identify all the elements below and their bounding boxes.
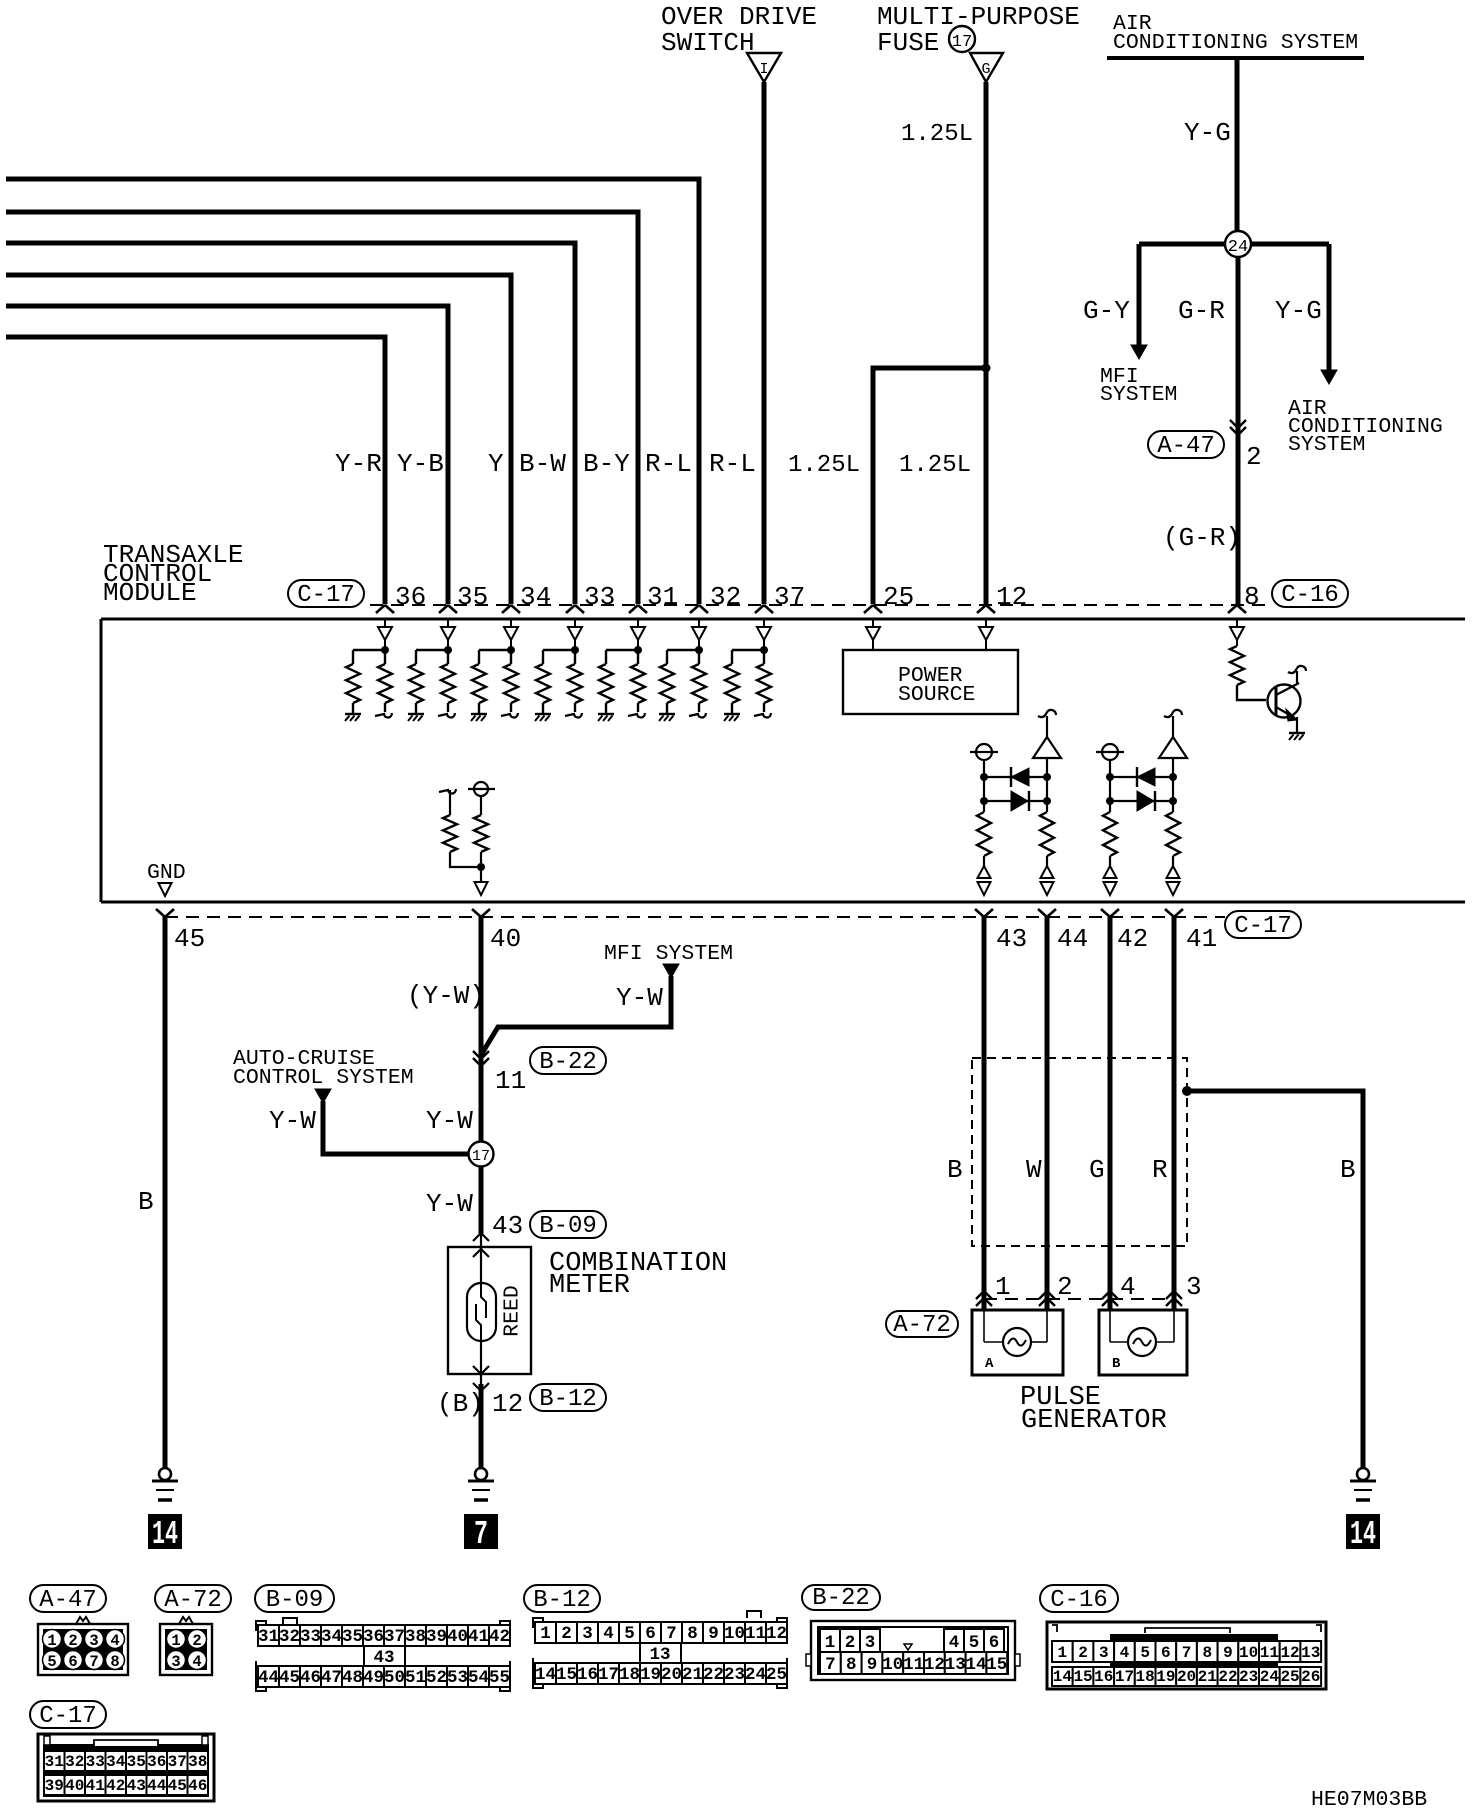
pulse connector dashed line (984, 1298, 1174, 1300)
svg-text:45: 45 (279, 1668, 300, 1688)
terminal mark pin 40 (472, 909, 490, 917)
svg-text:3: 3 (89, 1632, 98, 1650)
svg-text:5: 5 (47, 1653, 56, 1671)
terminal chevrons at meter top (473, 1233, 489, 1257)
svg-text:1: 1 (825, 1633, 836, 1653)
svg-text:53: 53 (447, 1668, 468, 1688)
svg-text:8: 8 (846, 1655, 857, 1675)
svg-text:4: 4 (1120, 1272, 1136, 1302)
pin number 12 (996, 582, 1027, 612)
svg-text:35: 35 (127, 1753, 146, 1771)
resistor base pin 8 (1230, 620, 1266, 700)
svg-text:40: 40 (447, 1627, 468, 1647)
junction dot fuse branch (982, 364, 991, 373)
connector C-16 reference top (1272, 580, 1348, 609)
svg-text:3: 3 (171, 1653, 180, 1671)
splice circle 24 overlay (1225, 231, 1251, 257)
pin number 2 (1246, 442, 1262, 472)
splice circle 24 (1139, 231, 1329, 257)
svg-text:2: 2 (845, 1633, 856, 1653)
wire label (G-R) (1163, 523, 1241, 553)
connector B-22 reference (530, 1047, 606, 1076)
svg-text:39: 39 (45, 1777, 64, 1795)
svg-text:19: 19 (1156, 1668, 1175, 1686)
wire label Y-R (335, 449, 382, 479)
svg-text:14: 14 (1350, 1516, 1376, 1553)
svg-text:1: 1 (171, 1632, 180, 1650)
fuse connector triangle G (970, 53, 1003, 82)
air conditioning system label top (1113, 12, 1358, 55)
svg-text:6: 6 (68, 1653, 77, 1671)
wire to pin 34 (6, 275, 511, 604)
wire label B-W (519, 449, 566, 479)
svg-text:37: 37 (168, 1753, 187, 1771)
wire over drive switch to pin 37 (762, 82, 767, 604)
transaxle control module box (101, 619, 1465, 902)
svg-text:10: 10 (724, 1624, 745, 1644)
svg-text:1.25L: 1.25L (899, 452, 971, 479)
connector C-17 pinout label (30, 1701, 106, 1730)
wire G-Y branch to MFI system (1131, 244, 1147, 359)
svg-text:C-16: C-16 (1281, 582, 1339, 609)
wire Y-W from auto-cruise control (315, 1089, 468, 1154)
svg-text:20: 20 (661, 1665, 682, 1685)
wire to pin 35 (6, 306, 448, 604)
wire label B pulse (947, 1155, 963, 1185)
wire label Y-W lower (426, 1189, 473, 1219)
drawing number (1311, 1788, 1427, 1810)
MFI system label mid (604, 942, 733, 966)
svg-text:42: 42 (106, 1777, 125, 1795)
terminal mark pin 12 (977, 605, 995, 613)
terminal chevrons pulse pin 4 (1102, 1291, 1118, 1306)
pulse pickup comparator block B (1096, 710, 1187, 895)
wire label Y-W left (269, 1106, 316, 1136)
transistor Q output (1268, 666, 1307, 740)
connector B-09 pinout label (255, 1585, 334, 1614)
svg-text:46: 46 (188, 1777, 207, 1795)
svg-text:33: 33 (300, 1627, 321, 1647)
svg-text:23: 23 (1239, 1668, 1258, 1686)
svg-text:14: 14 (1053, 1668, 1073, 1686)
svg-text:2: 2 (192, 1632, 201, 1650)
svg-text:7: 7 (1182, 1644, 1192, 1662)
transaxle control module label (103, 540, 243, 608)
connector A-47 pinout label (30, 1585, 106, 1614)
svg-text:B-09: B-09 (539, 1213, 597, 1240)
svg-text:15: 15 (556, 1665, 577, 1685)
svg-text:22: 22 (1218, 1668, 1237, 1686)
pulse generator B (1099, 1310, 1187, 1375)
splice circle 17 (469, 1142, 494, 1167)
wire label W pulse (1026, 1155, 1042, 1185)
svg-text:36: 36 (363, 1627, 384, 1647)
svg-text:(G-R): (G-R) (1163, 523, 1241, 553)
terminal mark pin 43 (975, 909, 993, 917)
over drive switch connector triangle I (747, 53, 781, 82)
svg-text:52: 52 (426, 1668, 447, 1688)
svg-text:G: G (981, 61, 990, 78)
ground symbol right (1350, 1468, 1376, 1500)
terminal mark pin 25 (864, 605, 882, 613)
svg-text:11: 11 (745, 1624, 766, 1644)
svg-text:2: 2 (68, 1632, 77, 1650)
pulse generator shield dashed box (972, 1058, 1187, 1246)
wire (Y-W) pin 40 (479, 916, 484, 1247)
svg-text:10: 10 (882, 1655, 903, 1675)
pin number 33 (584, 582, 615, 612)
svg-text:43: 43 (492, 1211, 523, 1241)
svg-text:3: 3 (865, 1633, 876, 1653)
connector B-09 reference (530, 1211, 606, 1240)
svg-text:B-12: B-12 (539, 1386, 597, 1413)
svg-text:3: 3 (1099, 1644, 1109, 1662)
svg-text:Y-B: Y-B (397, 449, 444, 479)
svg-text:Y-W: Y-W (426, 1106, 473, 1136)
auto-cruise control system label (233, 1047, 414, 1090)
wire label B shield (1340, 1155, 1356, 1185)
svg-text:G: G (1089, 1155, 1105, 1185)
terminal mark pin 44 (1038, 909, 1056, 917)
svg-text:44: 44 (258, 1668, 279, 1688)
pin number 40 (490, 924, 521, 954)
power source block (843, 620, 1018, 714)
svg-text:B: B (1340, 1155, 1356, 1185)
wire label Y-G top (1184, 118, 1231, 148)
svg-text:32: 32 (710, 582, 741, 612)
terminal mark pin 31 (629, 605, 647, 613)
svg-text:1: 1 (47, 1632, 56, 1650)
svg-text:13: 13 (945, 1655, 966, 1675)
svg-text:55: 55 (489, 1668, 510, 1688)
svg-text:22: 22 (703, 1665, 724, 1685)
svg-text:45: 45 (174, 924, 205, 954)
terminal mark pin 33 (566, 605, 584, 613)
terminal mark pin 36 (376, 605, 394, 613)
svg-text:B-22: B-22 (812, 1585, 870, 1612)
svg-text:Y-W: Y-W (426, 1189, 473, 1219)
terminal chevrons at meter bottom (473, 1366, 489, 1391)
wire pulse generator pin 41 (1172, 916, 1177, 1310)
pin number 32 (710, 582, 741, 612)
svg-text:GND: GND (147, 861, 186, 885)
connector C-16 pinout label (1040, 1585, 1118, 1614)
wire label Y-B (397, 449, 444, 479)
svg-text:12: 12 (924, 1655, 945, 1675)
svg-text:7: 7 (825, 1655, 836, 1675)
svg-text:37: 37 (384, 1627, 405, 1647)
connector C-17 reference bottom (1225, 911, 1301, 940)
svg-text:15: 15 (1073, 1668, 1092, 1686)
svg-text:18: 18 (1136, 1668, 1155, 1686)
svg-text:2: 2 (1246, 442, 1262, 472)
pin number 12 meter (492, 1389, 523, 1419)
svg-text:Y-G: Y-G (1184, 118, 1231, 148)
svg-text:1.25L: 1.25L (788, 452, 860, 479)
svg-text:Y-W: Y-W (269, 1106, 316, 1136)
svg-text:23: 23 (724, 1665, 745, 1685)
svg-text:32: 32 (279, 1627, 300, 1647)
connector A-72 reference (886, 1311, 958, 1339)
svg-text:33: 33 (584, 582, 615, 612)
svg-text:47: 47 (321, 1668, 342, 1688)
pin number 35 (457, 582, 488, 612)
svg-text:32: 32 (65, 1753, 84, 1771)
wire Y-G from a/c system (1235, 58, 1240, 232)
wire label (B) (437, 1389, 484, 1419)
wire label R-L right (709, 449, 756, 479)
svg-text:2: 2 (1057, 1272, 1073, 1302)
wire pulse generator pin 43 (982, 916, 987, 1310)
ground symbol center (468, 1468, 494, 1500)
svg-text:14: 14 (152, 1516, 178, 1553)
svg-text:34: 34 (106, 1753, 126, 1771)
svg-text:5: 5 (1140, 1644, 1150, 1662)
terminal mark pin 32 (690, 605, 708, 613)
svg-text:1: 1 (540, 1624, 551, 1644)
svg-text:SYSTEM: SYSTEM (1288, 433, 1365, 457)
pulse generator A (972, 1310, 1063, 1375)
pin number 43 (996, 924, 1027, 954)
svg-text:36: 36 (147, 1753, 166, 1771)
svg-text:7: 7 (89, 1653, 98, 1671)
svg-text:W: W (1026, 1155, 1042, 1185)
wire Y-W from MFI system (481, 964, 679, 1055)
ground reference 7 (464, 1514, 498, 1553)
svg-text:2: 2 (1078, 1644, 1088, 1662)
svg-text:41: 41 (468, 1627, 489, 1647)
svg-text:16: 16 (1094, 1668, 1113, 1686)
wire label R-L left (645, 449, 692, 479)
svg-text:38: 38 (405, 1627, 426, 1647)
svg-text:36: 36 (395, 582, 426, 612)
svg-text:2: 2 (561, 1624, 572, 1644)
module input resistor pair pin 35 (408, 620, 455, 721)
svg-text:31: 31 (647, 582, 678, 612)
svg-text:44: 44 (147, 1777, 167, 1795)
svg-text:6: 6 (1161, 1644, 1171, 1662)
svg-text:FUSE: FUSE (877, 28, 939, 58)
svg-text:34: 34 (520, 582, 551, 612)
svg-text:MODULE: MODULE (103, 578, 197, 608)
svg-text:B-Y: B-Y (583, 449, 630, 479)
svg-text:B-W: B-W (519, 449, 566, 479)
over drive switch label (661, 2, 817, 58)
pin number 3 pulse (1186, 1272, 1202, 1302)
svg-text:17: 17 (472, 1148, 490, 1165)
svg-text:25: 25 (1280, 1668, 1299, 1686)
svg-text:14: 14 (965, 1655, 986, 1675)
svg-text:26: 26 (1301, 1668, 1320, 1686)
svg-text:17: 17 (598, 1665, 619, 1685)
svg-text:7: 7 (474, 1516, 488, 1553)
module input resistor pair pin 32 (659, 620, 706, 721)
svg-text:Y-G: Y-G (1275, 296, 1322, 326)
wire Y-G branch to air conditioning (1321, 244, 1337, 384)
wire to pin 36 (6, 337, 385, 604)
terminal mark pin 34 (502, 605, 520, 613)
svg-text:MFI SYSTEM: MFI SYSTEM (604, 942, 733, 966)
svg-text:9: 9 (708, 1624, 719, 1644)
svg-text:C-16: C-16 (1050, 1587, 1108, 1614)
svg-text:A-47: A-47 (39, 1587, 97, 1614)
svg-text:48: 48 (342, 1668, 363, 1688)
svg-text:41: 41 (1186, 924, 1217, 954)
svg-text:SYSTEM: SYSTEM (1100, 383, 1177, 407)
svg-text:(Y-W): (Y-W) (407, 981, 485, 1011)
svg-text:12: 12 (996, 582, 1027, 612)
ground reference 14 left (148, 1514, 182, 1553)
terminal chevrons pulse pin 2 (1039, 1291, 1055, 1306)
svg-text:METER: METER (549, 1271, 630, 1301)
reed switch (467, 1247, 496, 1374)
wire value 1.25L left (788, 452, 860, 479)
svg-text:GENERATOR: GENERATOR (1021, 1406, 1167, 1436)
svg-text:4: 4 (110, 1632, 119, 1650)
svg-text:8: 8 (687, 1624, 698, 1644)
svg-text:A-72: A-72 (164, 1587, 222, 1614)
ground reference 14 right (1346, 1514, 1380, 1553)
svg-text:Y-W: Y-W (616, 983, 663, 1013)
svg-text:8: 8 (110, 1653, 119, 1671)
pin number 25 (883, 582, 914, 612)
svg-text:31: 31 (45, 1753, 64, 1771)
connector A-47 reference (1148, 431, 1224, 460)
svg-text:25: 25 (766, 1665, 787, 1685)
terminal mark pin 35 (439, 605, 457, 613)
svg-text:B: B (947, 1155, 963, 1185)
svg-text:B-09: B-09 (266, 1587, 324, 1614)
terminal mark pin 41 (1165, 909, 1183, 917)
wire label G pulse (1089, 1155, 1105, 1185)
svg-text:B-12: B-12 (533, 1587, 591, 1614)
svg-text:35: 35 (342, 1627, 363, 1647)
pin number 41 (1186, 924, 1217, 954)
svg-text:38: 38 (188, 1753, 207, 1771)
svg-text:A-47: A-47 (1157, 433, 1215, 460)
svg-text:37: 37 (774, 582, 805, 612)
svg-text:C-17: C-17 (297, 582, 355, 609)
pin number 31 (647, 582, 678, 612)
pulse generator label (1020, 1383, 1167, 1436)
svg-text:4: 4 (603, 1624, 614, 1644)
terminal mark pin 37 (755, 605, 773, 613)
svg-text:HE07M03BB: HE07M03BB (1311, 1788, 1427, 1810)
combination meter label (549, 1249, 727, 1301)
svg-text:42: 42 (1117, 924, 1148, 954)
terminal mark pin 8 (1228, 605, 1246, 613)
svg-text:A: A (985, 1356, 994, 1372)
connector A-47 pinout (38, 1617, 128, 1675)
svg-text:8: 8 (1244, 582, 1260, 612)
svg-text:10: 10 (1239, 1644, 1258, 1662)
wire label G-Y (1083, 296, 1130, 326)
connector A-72 pinout label (155, 1585, 231, 1614)
svg-text:13: 13 (1301, 1644, 1320, 1662)
pin number 1 pulse (995, 1272, 1011, 1302)
wire branch to pin 25 (873, 368, 986, 604)
pin number 8 (1244, 582, 1260, 612)
svg-text:46: 46 (300, 1668, 321, 1688)
module bottom connector dashed line (165, 916, 1225, 918)
svg-text:11: 11 (495, 1066, 526, 1096)
wire label Y-W mid (426, 1106, 473, 1136)
svg-text:CONDITIONING SYSTEM: CONDITIONING SYSTEM (1113, 31, 1358, 55)
pin number 44 (1057, 924, 1088, 954)
terminal mark pin 45 (156, 909, 174, 917)
wire label G-R (1178, 296, 1225, 326)
multi-purpose fuse label (877, 2, 1080, 58)
module input resistor pair pin 31 (598, 620, 645, 721)
svg-text:18: 18 (619, 1665, 640, 1685)
MFI system label (1100, 365, 1177, 407)
connector B-12 pinout label (524, 1585, 600, 1614)
svg-text:4: 4 (1120, 1644, 1130, 1662)
svg-text:14: 14 (535, 1665, 556, 1685)
svg-text:7: 7 (666, 1624, 677, 1644)
svg-text:9: 9 (1223, 1644, 1233, 1662)
svg-text:R-L: R-L (709, 449, 756, 479)
module input resistor pair pin 37 (724, 620, 771, 721)
svg-text:43: 43 (996, 924, 1027, 954)
pulse pickup comparator block A (970, 710, 1061, 895)
pin number 4 pulse (1120, 1272, 1136, 1302)
svg-text:5: 5 (624, 1624, 635, 1644)
wire label R pulse (1152, 1155, 1168, 1185)
pin number 2 pulse (1057, 1272, 1073, 1302)
svg-text:R-L: R-L (645, 449, 692, 479)
svg-text:43: 43 (127, 1777, 146, 1795)
svg-text:6: 6 (645, 1624, 656, 1644)
module input resistor pair pin 36 (345, 620, 392, 721)
air conditioning system label right (1288, 397, 1443, 457)
svg-text:I: I (759, 61, 768, 78)
pin number 42 (1117, 924, 1148, 954)
svg-text:17: 17 (952, 33, 972, 52)
terminal mark pin 42 (1101, 909, 1119, 917)
svg-text:49: 49 (363, 1668, 384, 1688)
pin number 45 (174, 924, 205, 954)
terminal chevrons pulse pin 1 (976, 1291, 992, 1306)
svg-text:1: 1 (1058, 1644, 1068, 1662)
svg-text:9: 9 (867, 1655, 878, 1675)
svg-text:REED: REED (501, 1285, 525, 1337)
pin number 36 (395, 582, 426, 612)
svg-text:G-Y: G-Y (1083, 296, 1130, 326)
pin number 43 meter (492, 1211, 523, 1241)
svg-text:12: 12 (1280, 1644, 1299, 1662)
in-line connector chevrons pin 2 (1230, 420, 1246, 435)
wire to pin 33 (6, 243, 575, 604)
svg-text:50: 50 (384, 1668, 405, 1688)
connector B-12 pinout (533, 1611, 787, 1688)
svg-text:A-72: A-72 (893, 1312, 951, 1339)
svg-text:39: 39 (426, 1627, 447, 1647)
svg-text:C-17: C-17 (39, 1703, 97, 1730)
svg-text:54: 54 (468, 1668, 489, 1688)
svg-text:11: 11 (1260, 1644, 1279, 1662)
wire to pin 31 (6, 212, 638, 604)
svg-text:21: 21 (1198, 1668, 1217, 1686)
svg-text:12: 12 (492, 1389, 523, 1419)
svg-text:19: 19 (640, 1665, 661, 1685)
svg-text:41: 41 (86, 1777, 105, 1795)
wire (B) meter to ground (480, 1374, 482, 1468)
wire label B left (138, 1187, 154, 1217)
wire value 1.25L upper (901, 121, 973, 148)
wire label Y-W right (616, 983, 663, 1013)
svg-text:3: 3 (1186, 1272, 1202, 1302)
